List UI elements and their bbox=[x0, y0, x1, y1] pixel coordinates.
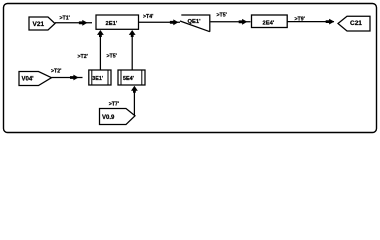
svg-text:V21: V21 bbox=[33, 21, 45, 28]
svg-text:>T1': >T1' bbox=[60, 15, 70, 21]
svg-text:2E1': 2E1' bbox=[106, 21, 118, 27]
svg-text:>T2': >T2' bbox=[78, 54, 88, 60]
svg-text:>T7': >T7' bbox=[109, 102, 119, 108]
svg-text:V04': V04' bbox=[22, 76, 35, 82]
svg-text:C21: C21 bbox=[350, 20, 362, 27]
svg-text:>T9': >T9' bbox=[295, 16, 305, 22]
svg-text:2E4': 2E4' bbox=[263, 20, 275, 26]
svg-text:>T4': >T4' bbox=[143, 14, 153, 20]
svg-text:>T5': >T5' bbox=[107, 54, 117, 60]
svg-text:QE1': QE1' bbox=[188, 19, 202, 25]
svg-text:>T5': >T5' bbox=[217, 13, 227, 19]
svg-text:V0.9: V0.9 bbox=[102, 115, 115, 121]
svg-text:5E4': 5E4' bbox=[123, 76, 134, 82]
svg-text:>T2': >T2' bbox=[51, 68, 61, 74]
svg-text:3E1': 3E1' bbox=[92, 76, 103, 82]
